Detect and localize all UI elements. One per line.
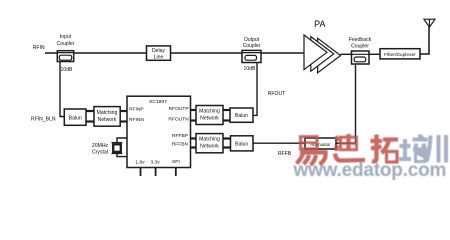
svg-text:RFFBN: RFFBN xyxy=(172,142,189,148)
svg-text:Matching: Matching xyxy=(199,137,220,143)
svg-text:10dB: 10dB xyxy=(244,66,256,72)
svg-text:Filter/Duplexer: Filter/Duplexer xyxy=(384,52,416,58)
svg-text:Matching: Matching xyxy=(97,110,118,116)
svg-text:Delay: Delay xyxy=(152,48,165,54)
svg-text:RFIN_BLN: RFIN_BLN xyxy=(31,116,56,122)
svg-text:www.edatop.com: www.edatop.com xyxy=(293,160,447,181)
svg-text:PA: PA xyxy=(314,19,325,29)
svg-text:Balun: Balun xyxy=(235,142,248,148)
svg-text:Network: Network xyxy=(98,117,117,123)
svg-text:RFINP: RFINP xyxy=(129,107,144,113)
svg-text:SPI: SPI xyxy=(172,159,180,165)
svg-text:RFOUTP: RFOUTP xyxy=(169,106,189,112)
svg-text:RFOUTN: RFOUTN xyxy=(168,117,189,123)
svg-text:Feedback: Feedback xyxy=(349,37,372,43)
svg-text:RFOUT: RFOUT xyxy=(268,91,286,97)
svg-text:Output: Output xyxy=(244,37,260,43)
svg-text:RFINN: RFINN xyxy=(129,117,144,123)
svg-text:Network: Network xyxy=(200,115,219,121)
svg-text:Coupler: Coupler xyxy=(351,44,369,50)
svg-text:Crystal: Crystal xyxy=(92,150,108,156)
svg-text:Matching: Matching xyxy=(199,109,220,115)
svg-text:Line: Line xyxy=(154,54,164,60)
svg-text:3.3v: 3.3v xyxy=(150,159,160,165)
svg-text:RFFBP: RFFBP xyxy=(172,133,188,139)
svg-text:Network: Network xyxy=(200,143,219,149)
svg-text:Coupler: Coupler xyxy=(243,43,261,49)
svg-text:Balun: Balun xyxy=(235,113,248,119)
svg-text:1.8v: 1.8v xyxy=(135,159,145,165)
svg-text:Coupler: Coupler xyxy=(57,41,75,47)
svg-text:10dB: 10dB xyxy=(61,67,73,73)
svg-text:SC1897: SC1897 xyxy=(149,99,167,105)
svg-text:RFIN: RFIN xyxy=(33,45,45,51)
svg-text:Balun: Balun xyxy=(69,115,82,121)
svg-text:20MHz: 20MHz xyxy=(92,143,109,149)
svg-text:Input: Input xyxy=(60,34,72,40)
svg-text:RFFB: RFFB xyxy=(278,151,292,157)
